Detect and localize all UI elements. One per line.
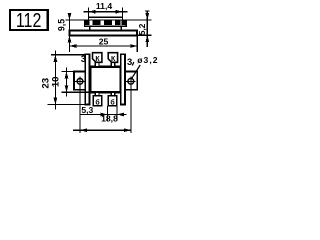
svg-text:б: б [110, 99, 115, 107]
bottom pin 3 stub [111, 92, 115, 96]
svg-text:5,2: 5,2 [138, 23, 147, 35]
dim 23 top extension [51, 54, 85, 56]
figure number box 112 [10, 10, 48, 30]
dim 5.2 extension top [126, 19, 151, 21]
dim 11.4 line [84, 11, 128, 13]
dim 11.4 arrow right [116, 10, 123, 14]
top pin 2 stub [95, 62, 99, 66]
svg-text:ø3,2: ø3,2 [137, 55, 158, 65]
dim 25 line [70, 45, 138, 47]
top pin 3 stub [111, 62, 115, 66]
svg-text:б: б [95, 99, 100, 107]
dim 5.3 left extension [107, 106, 109, 120]
collar bump 1 [92, 20, 100, 25]
svg-text:К: К [111, 56, 116, 63]
package body [90, 67, 121, 93]
dim 11.4 extension right [122, 8, 124, 18]
dim 10 top extension [62, 71, 75, 73]
hole right [128, 78, 134, 84]
dim 11.4 extension left [88, 8, 90, 18]
collar bump 3 [115, 20, 121, 25]
svg-text:11,4: 11,4 [96, 1, 112, 11]
dim 23 arrow up [54, 55, 58, 62]
top pin 4 (right outer, full height) [121, 54, 125, 104]
flag B1 [93, 96, 102, 106]
flange plate [70, 31, 138, 36]
dim 10 bottom extension [62, 91, 91, 93]
dim 9.5 line [69, 14, 71, 53]
dim 25 arrow left [70, 44, 77, 48]
hole left cross tick [75, 80, 85, 82]
collar end cap left [85, 20, 90, 24]
svg-text:К: К [95, 56, 100, 63]
dim 9.5 extension top [66, 19, 85, 21]
hole right centerline [130, 76, 132, 133]
svg-text:10: 10 [51, 76, 62, 87]
dim 5.2 arrow down to top ext [145, 13, 149, 20]
flag K1 [93, 53, 102, 63]
dim 25 arrow right [130, 44, 137, 48]
bottom pin 2 stub [95, 92, 99, 96]
dim 25 right extension [136, 36, 138, 52]
dim 18.8 arrow right (inside) [124, 128, 131, 132]
flag B2 [108, 96, 117, 106]
dim 11.4 arrow left [89, 10, 96, 14]
dim 23 line [54, 51, 56, 110]
collar strip [85, 20, 127, 26]
svg-text:18,8: 18,8 [101, 113, 118, 123]
dim 9.5 arrow down [68, 36, 72, 43]
dim 23 bottom extension [48, 104, 86, 106]
mounting ear left [74, 72, 87, 90]
neck left [89, 26, 91, 30]
collar bump 2 [104, 20, 112, 25]
neck right [120, 26, 122, 30]
leader to right hole [132, 65, 141, 79]
hole left [77, 78, 83, 84]
dim 5.2 line [146, 11, 148, 47]
flag K2 [108, 53, 117, 63]
svg-text:3: 3 [127, 56, 132, 67]
svg-text:112: 112 [16, 10, 42, 32]
svg-text:25: 25 [99, 36, 109, 46]
dim 5.3 arrow right (outside) [117, 113, 124, 117]
svg-text:9,5: 9,5 [56, 19, 66, 31]
dim 10 arrow down [65, 85, 69, 92]
svg-text:5,3: 5,3 [81, 105, 93, 115]
dim 5.3 line [80, 114, 126, 116]
dim 18.8 arrow left (inside) [80, 128, 87, 132]
dim 23 arrow down [54, 98, 58, 105]
dim 18.8 line [73, 129, 131, 131]
collar end cap right [122, 20, 127, 24]
hole left centerline [79, 76, 81, 133]
dim 5.2 top tick [145, 10, 150, 12]
dim 5.3 arrow left (outside) [101, 113, 108, 117]
comma after right label [132, 62, 134, 66]
plate bottom extension line [137, 34, 152, 36]
dim 9.5 arrow up [68, 13, 72, 20]
dim 10 line [66, 68, 68, 97]
dim 10 arrow up [65, 72, 69, 79]
hole right cross tick [126, 80, 136, 82]
top pin 1 (left outer, full height) [85, 54, 89, 104]
body cap [89, 17, 123, 20]
dim 5.3 right extension [116, 106, 118, 120]
dim 5.2 arrow up to bottom ext [145, 35, 149, 42]
mounting ear right [125, 72, 138, 90]
